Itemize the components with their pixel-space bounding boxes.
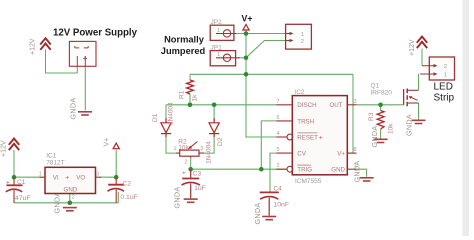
svg-text:R1: R1 <box>179 90 186 99</box>
wire R1 top <box>189 74 191 80</box>
wire C4 bottom lead <box>268 199 270 215</box>
svg-text:GND: GND <box>331 167 345 174</box>
wire C3 bottom lead <box>190 186 192 199</box>
wire D1 top lead <box>165 105 167 122</box>
svg-text:JP2: JP2 <box>211 19 223 26</box>
supply V+ triangle (top, near JP2) <box>243 25 249 31</box>
svg-text:D2: D2 <box>217 137 224 146</box>
svg-text:8: 8 <box>354 147 357 153</box>
svg-text:1: 1 <box>174 146 177 152</box>
supply +12V (top left) <box>40 38 50 50</box>
svg-text:GNDA: GNDA <box>370 126 379 148</box>
wire IC1 VO row <box>100 176 116 178</box>
resistor R3 10k <box>377 111 384 130</box>
wire bottom rail C1-GND-C2 <box>14 202 118 204</box>
wire +12V mid stem <box>13 150 15 177</box>
node: TRSH tie junction <box>259 167 264 172</box>
svg-text:47uF: 47uF <box>15 195 31 202</box>
resistor R1 1k <box>187 80 194 94</box>
pin 6 TRSH stub <box>276 120 292 122</box>
wire C1 bottom lead <box>13 192 15 203</box>
wire V+ mid stem <box>115 150 117 178</box>
node: wiper/C3/TRIG junction <box>188 167 193 172</box>
pin 5 CV stub <box>276 152 292 154</box>
svg-text:+: + <box>319 135 323 142</box>
op-amp / timer IC2 ICM7555 box <box>292 96 347 175</box>
ground GNDA (R3) <box>374 139 388 144</box>
pin 3 OUT stub <box>347 104 356 106</box>
scrollbar band right edge <box>463 0 470 236</box>
svg-text:1: 1 <box>444 73 447 79</box>
wire CV to C4 <box>270 153 276 192</box>
wire TRSH tie vertical <box>261 121 276 169</box>
IC2 pin names <box>297 102 345 173</box>
svg-text:1N4004: 1N4004 <box>168 102 175 125</box>
ground GNDA (IC2 GND pin) <box>360 177 374 182</box>
svg-text:TRIG: TRIG <box>297 167 312 174</box>
svg-text:GNDA: GNDA <box>173 187 182 209</box>
svg-text:3: 3 <box>200 146 203 152</box>
pin 1 VI stub <box>40 176 46 178</box>
wire R3 top lead <box>380 105 382 111</box>
connector JP3 (V+ feed, pins 1 2) <box>286 24 312 49</box>
capacitor C2 0.1uF <box>108 177 125 203</box>
svg-text:2: 2 <box>444 64 447 70</box>
svg-text:V+: V+ <box>337 151 345 158</box>
wire D2 bottom to R2 pin3 <box>204 136 214 154</box>
svg-text:C1: C1 <box>17 179 26 186</box>
source lead <box>407 102 418 104</box>
supply +12V (mid left) <box>9 139 19 151</box>
regulator IC1 7812T box <box>45 167 96 193</box>
svg-text:+: + <box>6 179 10 186</box>
svg-text:+12V: +12V <box>30 38 37 55</box>
wire TRIG rail <box>191 168 287 170</box>
svg-text:GNDA: GNDA <box>253 203 262 225</box>
svg-text:C2: C2 <box>123 180 132 187</box>
connector X1 12V power supply <box>69 41 96 66</box>
wire JP1 stub to junction <box>240 57 246 59</box>
diode D2 1N4004 <box>209 118 219 137</box>
svg-text:+: + <box>65 175 69 182</box>
svg-text:GNDA: GNDA <box>405 114 414 136</box>
svg-text:1: 1 <box>39 172 42 178</box>
node: D2/DISCH junction <box>212 103 217 108</box>
wire +12V stem to power connector pin row <box>46 50 78 74</box>
svg-text:+: + <box>182 170 186 177</box>
svg-text:1: 1 <box>301 32 304 38</box>
svg-text:0.1uF: 0.1uF <box>120 194 137 201</box>
pin 4 RESET stub + bubble <box>276 136 287 138</box>
svg-text:+12V: +12V <box>409 39 416 56</box>
gate bar <box>403 89 405 105</box>
node: VO/V+/C2 junction <box>114 175 119 180</box>
capacitor C4 10nF <box>260 192 279 216</box>
svg-text:2: 2 <box>185 160 188 166</box>
svg-text:7812T: 7812T <box>46 159 64 166</box>
wire R2 wiper down <box>190 157 192 169</box>
svg-text:C4: C4 <box>274 186 283 193</box>
jumper JP1 <box>210 51 240 66</box>
svg-text:Strip: Strip <box>434 93 455 104</box>
TRIG overline <box>297 164 311 166</box>
svg-text:OUT: OUT <box>329 102 342 109</box>
svg-text:Normally: Normally <box>164 35 205 45</box>
svg-text:IRF820: IRF820 <box>371 89 393 96</box>
wire IC1 GND pin down <box>69 194 71 203</box>
wire +12V right stem to LED pin2 <box>421 49 423 66</box>
capacitor C1 47uF (polarized) <box>6 177 23 203</box>
IC2 pin stubs <box>276 105 356 172</box>
svg-text:1: 1 <box>217 52 220 58</box>
svg-text:IC2: IC2 <box>294 89 305 96</box>
trimmer R2 10k <box>176 142 204 158</box>
wire DISCH rail <box>166 104 276 106</box>
svg-text:5: 5 <box>277 147 280 153</box>
svg-text:7: 7 <box>277 99 280 105</box>
wire connector pin2 diagonal to JP1 junction <box>246 41 286 58</box>
wire Q1 source to GNDA <box>418 103 420 120</box>
jumper JP2 <box>210 25 236 40</box>
svg-text:4: 4 <box>277 131 280 137</box>
svg-text:LED: LED <box>434 82 453 93</box>
svg-text:RESET: RESET <box>297 134 318 141</box>
node: R1/DISCH junction <box>188 103 193 108</box>
wire C2 bottom lead <box>117 192 119 203</box>
svg-text:GNDA: GNDA <box>53 192 62 214</box>
channel bar (3 segments) <box>406 89 408 107</box>
pin 7 DISCH stub <box>276 104 292 106</box>
svg-text:VO: VO <box>76 175 85 182</box>
svg-text:10nF: 10nF <box>274 201 290 208</box>
diode D1 1N4004 <box>161 118 171 137</box>
svg-text:+12V: +12V <box>1 140 8 157</box>
wire power connector pin1 down <box>76 66 78 73</box>
ground GNDA (C3) <box>184 198 198 203</box>
ground GNDA (7812) <box>63 207 77 212</box>
ground GNDA (power connector) <box>78 111 92 116</box>
IC2 pin numbers <box>277 99 357 169</box>
svg-text:12V Power Supply: 12V Power Supply <box>53 28 138 39</box>
svg-text:Jumpered: Jumpered <box>161 46 206 56</box>
svg-text:1k: 1k <box>192 94 199 102</box>
svg-text:TRSH: TRSH <box>297 118 314 125</box>
svg-text:10k: 10k <box>388 123 395 134</box>
svg-text:2: 2 <box>301 39 304 45</box>
svg-text:1uF: 1uF <box>194 185 206 192</box>
svg-text:3: 3 <box>354 99 357 105</box>
node: JP1 junction <box>244 56 249 61</box>
node: GND rail junction <box>68 201 73 206</box>
wire D2 top lead <box>213 105 215 122</box>
svg-text:GNDA: GNDA <box>69 98 78 120</box>
svg-text:VI: VI <box>53 175 59 182</box>
pin 3 VO stub <box>96 176 102 178</box>
node: V+ rail junction <box>244 72 249 77</box>
wire C3 top lead <box>190 169 192 178</box>
pin 2 TRIG stub + bubble <box>276 168 287 170</box>
svg-text:CV: CV <box>297 151 306 158</box>
svg-text:1: 1 <box>354 163 357 169</box>
node: OUT/R3/gate junction <box>378 103 383 108</box>
svg-text:10k: 10k <box>178 145 189 152</box>
supply V+ triangle (by 7812) <box>113 143 119 149</box>
svg-text:C3: C3 <box>193 170 202 177</box>
wire LED pin1 to Q1 drain <box>418 74 420 90</box>
svg-text:R3: R3 <box>368 112 375 121</box>
svg-text:3: 3 <box>96 172 99 178</box>
wire R1 bottom <box>189 94 191 105</box>
connector LED strip <box>420 57 455 80</box>
svg-text:ICM7555: ICM7555 <box>295 178 322 185</box>
ground GNDA (C4) <box>262 216 276 221</box>
wire power connector pin2 to GNDA <box>84 66 86 110</box>
wire IC2 GND pin to GNDA <box>357 169 367 177</box>
svg-text:1: 1 <box>217 28 220 34</box>
wire V+ top triangle stem / vertical to RESET <box>246 30 287 137</box>
wire JP2 to connector pin1 <box>236 33 286 35</box>
wire OUT to gate <box>357 104 404 106</box>
node: C1/+12V/VI junction <box>12 175 17 180</box>
node: V+ / JP2 junction <box>244 31 249 36</box>
svg-text:D1: D1 <box>152 113 159 122</box>
svg-text:6: 6 <box>277 115 280 121</box>
body arrow <box>410 97 417 100</box>
svg-text:DISCH: DISCH <box>297 102 316 109</box>
drain lead <box>407 89 418 91</box>
svg-text:V+: V+ <box>104 138 111 147</box>
wire D1 bottom to R2 pin1 <box>166 136 176 154</box>
pin 8 V+ stub <box>347 152 356 154</box>
RESET overline <box>297 132 317 134</box>
pin 1 GND stub <box>347 168 356 170</box>
svg-text:2: 2 <box>277 163 280 169</box>
wire V+ rail down to IC2 pin8 <box>347 74 353 153</box>
supply +12V (right, LED strip) <box>417 37 427 49</box>
wire R3 bottom lead <box>380 129 382 139</box>
ground GNDA (Q1 source) <box>412 120 426 125</box>
svg-text:V+: V+ <box>242 14 253 24</box>
svg-text:JP1: JP1 <box>211 44 223 51</box>
svg-text:2: 2 <box>72 195 75 201</box>
svg-text:GND: GND <box>64 187 78 194</box>
svg-text:1N4004: 1N4004 <box>206 141 213 164</box>
wire IC1 VI row <box>14 176 41 178</box>
capacitor C3 1uF (polarized) <box>182 169 200 198</box>
transistor Q1 IRF820 <box>404 89 419 107</box>
wire V+ rail horizontal <box>190 73 353 75</box>
